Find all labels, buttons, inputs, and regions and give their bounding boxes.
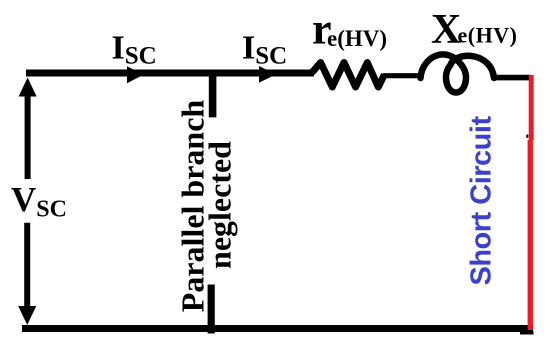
short-circuit link (red) lower segment	[528, 140, 533, 330]
resistor re(HV)	[312, 63, 385, 88]
svg-text:re(HV): re(HV)	[312, 5, 387, 54]
voltage arrow upper segment	[25, 93, 31, 179]
voltage arrow lower segment	[24, 223, 30, 310]
parallel branch top stub	[209, 72, 217, 117]
parallel branch bottom stub	[208, 285, 215, 334]
current arrow 2	[259, 66, 276, 83]
voltage arrow upper head	[19, 78, 37, 97]
wire resistor to inductor	[383, 73, 422, 78]
svg-text:Short Circuit: Short Circuit	[466, 116, 498, 286]
wire inductor to short-circuit link	[493, 75, 531, 81]
inductor Xe(HV)	[421, 54, 495, 92]
bottom wire	[22, 325, 533, 332]
current arrow 1	[127, 66, 144, 83]
short-circuit link (red) upper segment	[529, 75, 534, 140]
top wire	[26, 70, 314, 77]
svg-text:ISC: ISC	[242, 30, 287, 70]
voltage arrow lower head	[18, 306, 36, 325]
bottom wire end step	[520, 331, 534, 335]
svg-text:neglected: neglected	[202, 141, 238, 269]
junction dot artifact	[526, 135, 528, 138]
svg-text:VSC: VSC	[11, 180, 67, 223]
svg-text:Xe(HV): Xe(HV)	[431, 7, 517, 53]
svg-text:ISC: ISC	[112, 30, 157, 70]
